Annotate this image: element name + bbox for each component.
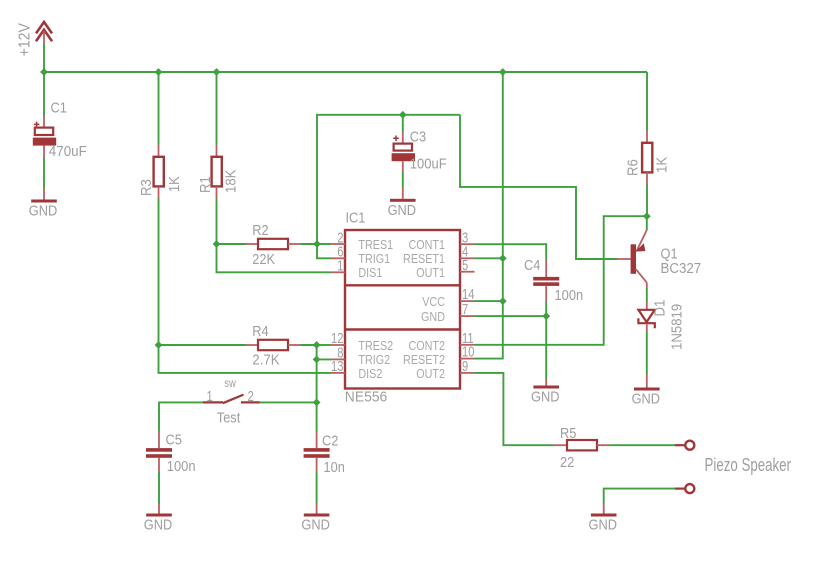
wire node to IC pin 2: [317, 243, 331, 245]
svg-text:Test: Test: [217, 408, 241, 425]
svg-text:2: 2: [248, 387, 254, 404]
capacitor C2: [304, 431, 345, 475]
pad piezo -: [675, 488, 685, 490]
node switch/C2: [313, 399, 321, 407]
svg-text:10n: 10n: [324, 458, 345, 475]
ground GND C5: [144, 504, 172, 533]
svg-text:Q1: Q1: [661, 244, 678, 261]
svg-text:NE556: NE556: [345, 389, 387, 406]
node R3/R4: [155, 341, 163, 349]
svg-text:DIS2: DIS2: [358, 366, 382, 381]
svg-text:100n: 100n: [555, 286, 584, 303]
node pin8: [313, 356, 321, 364]
svg-text:C3: C3: [410, 128, 427, 145]
resistor R5: [554, 424, 611, 470]
svg-text:C2: C2: [322, 432, 339, 449]
svg-text:1: 1: [337, 257, 343, 274]
svg-text:5: 5: [462, 257, 468, 274]
wire R3 branch to IC pin 13: [159, 345, 332, 373]
C1 plates: [33, 99, 87, 161]
svg-text:TRES2: TRES2: [358, 338, 393, 353]
svg-text:BC327: BC327: [661, 260, 702, 277]
svg-text:1: 1: [207, 387, 213, 404]
wire C1 to ground: [43, 157, 45, 189]
node top rail: [44, 71, 647, 73]
wire node to IC pin 8: [317, 345, 331, 359]
svg-text:IC1: IC1: [346, 209, 366, 226]
switch SW Test: [203, 377, 260, 426]
node Q1 emitter: [643, 212, 651, 220]
node pin4: [499, 254, 507, 262]
capacitor C3: [392, 128, 447, 172]
wire TRIG rail to Q1 base: [460, 115, 617, 259]
svg-text:GND: GND: [29, 202, 57, 219]
svg-text:100n: 100n: [167, 457, 196, 474]
wire C4 to ground: [545, 302, 547, 379]
node C3 tap: [399, 111, 407, 119]
wire switch right to node: [259, 401, 316, 403]
svg-text:18K: 18K: [222, 169, 239, 193]
svg-text:OUT2: OUT2: [416, 366, 445, 381]
svg-text:R5: R5: [560, 424, 577, 441]
svg-text:D1: D1: [651, 300, 668, 317]
wire pad to ground: [604, 489, 675, 503]
node pin14: [499, 297, 507, 305]
wire C2 to ground: [316, 472, 318, 504]
svg-text:+12V: +12V: [16, 23, 34, 57]
svg-text:13: 13: [331, 358, 343, 375]
wire rail to pin4/pin14/pin10: [475, 72, 503, 359]
svg-text:22: 22: [560, 453, 574, 470]
+12V supply symbol: [16, 22, 52, 57]
wire IC pin 9 to R5: [475, 373, 554, 445]
svg-text:R3: R3: [138, 179, 155, 196]
svg-text:DIS1: DIS1: [358, 265, 382, 280]
svg-text:R2: R2: [252, 221, 269, 238]
svg-text:GND: GND: [632, 390, 660, 407]
capacitor C5: [146, 431, 195, 475]
wire node to C2: [316, 402, 318, 431]
svg-text:2.7K: 2.7K: [252, 352, 280, 369]
wire node to IC pin 14: [475, 300, 503, 302]
svg-text:1K: 1K: [166, 176, 183, 193]
svg-text:CONT2: CONT2: [408, 338, 445, 353]
node pin7/C4: [542, 312, 550, 320]
wire rail to R6: [646, 72, 648, 131]
svg-text:1K: 1K: [654, 156, 671, 173]
node pin2/pin6: [313, 240, 321, 248]
resistor R1: [197, 145, 240, 199]
ground GND C1: [29, 189, 57, 219]
capacitor C4: [524, 256, 583, 303]
svg-text:7: 7: [462, 301, 468, 318]
wire C3 to ground: [402, 172, 404, 188]
wire R2 to pin2 node: [301, 243, 318, 245]
wire R3 to node: [158, 199, 160, 346]
ground GND piezo: [589, 503, 617, 533]
resistor R4: [246, 322, 301, 369]
svg-text:470uF: 470uF: [49, 143, 87, 160]
ground GND C4: [531, 379, 559, 405]
svg-text:100uF: 100uF: [410, 155, 447, 172]
node pin12: [313, 341, 321, 349]
svg-text:C5: C5: [166, 431, 183, 448]
wire node to IC pin 12: [317, 344, 331, 346]
svg-text:1N5819: 1N5819: [669, 304, 686, 350]
svg-text:9: 9: [462, 358, 468, 375]
diode D1 1N5819: [638, 300, 685, 350]
svg-text:VCC: VCC: [422, 294, 445, 309]
wire C5 to ground: [158, 472, 160, 504]
op-amp IC1 NE556 body: [345, 209, 460, 406]
wire R6 to Q1 node: [646, 185, 648, 217]
wire R1 to R2 node: [216, 199, 218, 245]
svg-text:22K: 22K: [252, 250, 275, 267]
node R1-R2: [213, 240, 221, 248]
svg-text:GND: GND: [531, 388, 559, 405]
wire rail to R3: [158, 72, 160, 145]
wire node to R4: [159, 344, 247, 346]
wire node down to switch: [316, 359, 318, 402]
svg-text:R1: R1: [197, 176, 214, 193]
svg-text:R6: R6: [625, 159, 642, 176]
ground GND C2: [301, 504, 329, 533]
wire node up to TRIG rail: [317, 115, 460, 244]
wire switch left to C5: [159, 402, 203, 431]
svg-text:GND: GND: [301, 516, 329, 533]
wire node to IC pin 4: [475, 257, 503, 259]
svg-text:sw: sw: [224, 377, 236, 390]
ground GND C3: [388, 188, 416, 218]
wire D1 to ground: [646, 331, 648, 374]
svg-text:GND: GND: [388, 201, 416, 218]
wire rail to C1: [43, 72, 45, 116]
svg-text:R4: R4: [252, 322, 269, 339]
resistor R2: [246, 221, 301, 267]
svg-text:GND: GND: [144, 516, 172, 533]
wire to R2: [217, 243, 247, 245]
svg-text:GND: GND: [589, 516, 617, 533]
svg-text:C1: C1: [51, 99, 68, 116]
wire Q1 collector to D1: [646, 288, 648, 302]
svg-text:TRIG1: TRIG1: [358, 251, 390, 266]
IC1 pin names: [358, 237, 445, 381]
wire R5 to pad: [610, 444, 675, 446]
wire R4 to pin12 node: [301, 344, 317, 346]
IC1 right pins 3 4 5 14 7 11 10 9: [460, 229, 475, 375]
capacitor C1: [34, 116, 44, 128]
svg-text:C4: C4: [524, 256, 541, 273]
wire node to IC pin 6: [317, 244, 331, 258]
wire tap to C3: [402, 115, 404, 132]
svg-text:Piezo Speaker: Piezo Speaker: [705, 455, 792, 476]
svg-text:RESET1: RESET1: [403, 251, 445, 266]
wire +12V to rail: [43, 44, 45, 72]
ground GND D1: [632, 374, 660, 407]
wire IC pin 7 to node: [475, 315, 547, 317]
resistor R3: [138, 145, 183, 199]
IC1 left pins 2 6 1 12 8 13: [331, 229, 345, 375]
pad piezo +: [675, 444, 685, 446]
svg-text:OUT1: OUT1: [416, 265, 445, 280]
svg-text:GND: GND: [421, 309, 445, 324]
wire R1/R2 node to IC pin 1: [217, 244, 332, 272]
wire node to IC pin 11: [475, 216, 647, 345]
wire rail to R1: [216, 72, 218, 145]
wire IC pin 3 to C4: [475, 244, 547, 259]
transistor Q1 BC327: [617, 216, 701, 288]
resistor R6: [625, 131, 671, 185]
